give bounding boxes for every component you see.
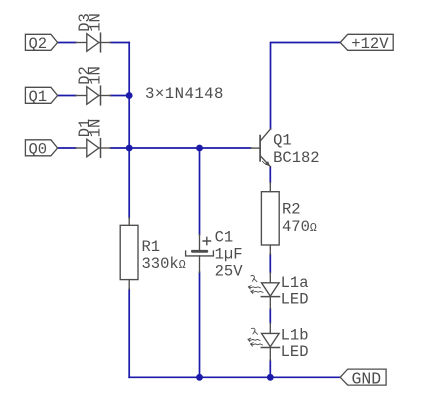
- wire bottom rail: [129, 376, 340, 378]
- svg-text:C1: C1: [215, 228, 234, 246]
- svg-text:1N: 1N: [87, 13, 105, 32]
- wire C1 top: [199, 148, 201, 234]
- wire L1a to L1b: [269, 309, 271, 323]
- svg-text:R2: R2: [282, 201, 301, 219]
- svg-text:Q0: Q0: [29, 141, 48, 159]
- svg-text:LED: LED: [281, 291, 309, 309]
- wire bus vertical: [128, 43, 130, 218]
- svg-text:330kΩ: 330kΩ: [142, 255, 186, 273]
- svg-text:LED: LED: [281, 343, 309, 361]
- wire +12V rail: [271, 43, 341, 129]
- svg-text:BC182: BC182: [273, 149, 320, 167]
- svg-text:Q2: Q2: [29, 35, 48, 53]
- svg-text:R1: R1: [142, 238, 161, 256]
- junction dot bus/Q0: [126, 145, 133, 152]
- terminal Q1: [25, 87, 57, 103]
- junction dot C1 bottom: [196, 374, 203, 381]
- terminal GND: [340, 369, 386, 385]
- svg-text:Q1: Q1: [273, 131, 292, 149]
- LED L1b: [261, 323, 279, 361]
- svg-text:3×1N4148: 3×1N4148: [145, 85, 224, 103]
- terminal Q0: [25, 140, 57, 156]
- transistor Q1: [251, 129, 271, 167]
- svg-text:25V: 25V: [215, 263, 244, 281]
- wire Q2 row to D3: [58, 42, 76, 44]
- wire D2 to bus: [111, 95, 130, 97]
- svg-text:Q1: Q1: [29, 88, 48, 106]
- wire D1 to transistor base: [111, 147, 251, 149]
- terminal +12V: [340, 34, 393, 50]
- light arrows L1a: [248, 275, 262, 293]
- wire Q1 row to D2: [58, 95, 76, 97]
- wire Q0 row to D1: [58, 147, 76, 149]
- diode D2: [76, 86, 111, 105]
- svg-text:1N: 1N: [87, 119, 105, 138]
- svg-text:1µF: 1µF: [215, 245, 243, 263]
- wire R2 to L1a: [269, 254, 271, 272]
- svg-text:L1a: L1a: [281, 274, 309, 292]
- light arrows L1b: [248, 328, 262, 346]
- resistor R2: [261, 183, 279, 255]
- wire emitter to R2: [269, 167, 271, 183]
- LED L1a: [261, 273, 279, 309]
- wire R1 bottom to bottom rail: [128, 289, 130, 377]
- junction dot bus/Q1: [126, 92, 133, 99]
- svg-text:GND: GND: [352, 369, 382, 388]
- wire L1b to bottom rail: [269, 360, 271, 377]
- diode D1: [76, 139, 111, 158]
- junction dot C1 top: [196, 145, 203, 152]
- svg-text:1N: 1N: [87, 66, 105, 85]
- svg-text:470Ω: 470Ω: [282, 218, 317, 236]
- junction dot LED bottom: [267, 374, 274, 381]
- terminal Q2: [25, 34, 57, 50]
- resistor R1: [120, 218, 138, 290]
- wire C1 bottom: [199, 272, 201, 377]
- wire D3 to bus corner: [111, 42, 130, 44]
- capacitor C1: [186, 234, 214, 272]
- svg-text:L1b: L1b: [281, 327, 309, 345]
- svg-text:+12V: +12V: [351, 35, 389, 53]
- diode D3: [76, 33, 111, 52]
